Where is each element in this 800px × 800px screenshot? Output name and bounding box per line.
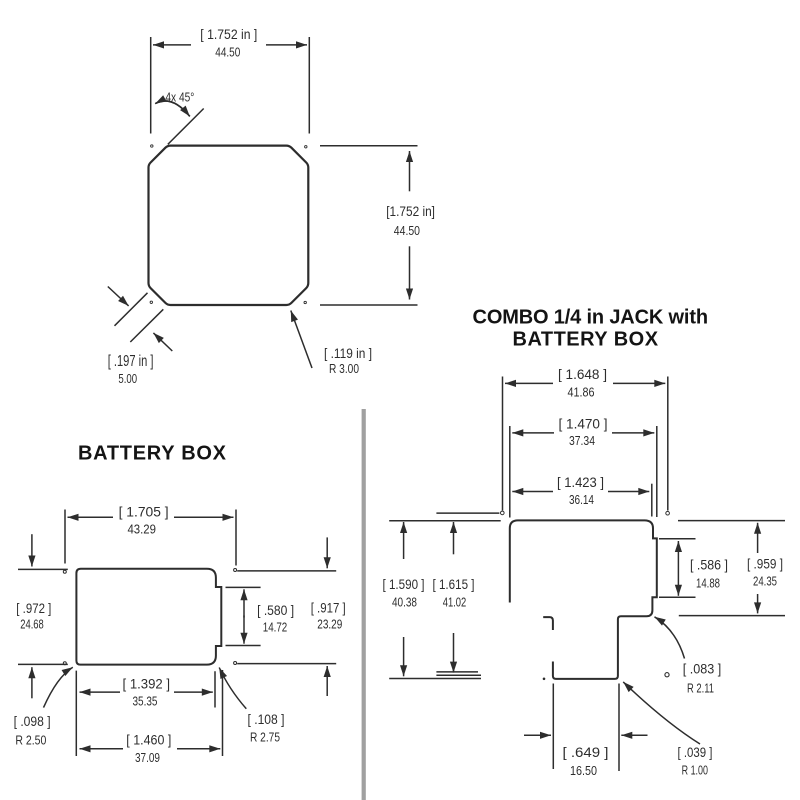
svg-text:37.34: 37.34 (569, 433, 595, 448)
dim .972 : arrows (31, 534, 33, 566)
witness circle 1.648 right (666, 511, 670, 515)
left datum lines (389, 513, 501, 521)
leader R1.00 (623, 682, 700, 744)
corner hole bottom-right (304, 301, 306, 303)
combo cutout outline upper (510, 520, 657, 679)
svg-text:R 2.50: R 2.50 (15, 733, 46, 748)
svg-text:35.35: 35.35 (133, 694, 158, 709)
dim 1.752in right : arrow down (409, 246, 411, 299)
witness hole top-right (234, 569, 237, 572)
svg-text:[ .580 ]: [ .580 ] (257, 603, 294, 619)
dim 1.470 : arrows (512, 432, 554, 434)
svg-text:[ 1.705 ]: [ 1.705 ] (119, 505, 169, 521)
chamfer note arc arrow (155, 101, 190, 116)
dim .197in chamfer line 2 (130, 309, 163, 342)
dim .959 : arrows (757, 523, 759, 553)
svg-text:41.86: 41.86 (568, 385, 595, 400)
corner hole bottom-left (150, 301, 152, 303)
svg-text:[ .098 ]: [ .098 ] (14, 714, 51, 730)
witness hole top-left (63, 570, 66, 573)
dim .580 : extension lines (226, 587, 261, 645)
square cutout outline with 4x 45deg chamfers (149, 146, 309, 305)
leader R3.00 (291, 311, 312, 369)
svg-text:[ .108 ]: [ .108 ] (248, 712, 285, 728)
dim 1.423 : extension line (651, 484, 653, 517)
dim .197in arrow 1 (108, 287, 129, 306)
dim 1.460 : extension line (222, 670, 224, 756)
battery box outline (76, 569, 221, 665)
dim 1.392 : arrows (80, 691, 121, 693)
svg-text:[1.752 in]: [1.752 in] (386, 204, 435, 220)
dim 1.615 : arrows (453, 522, 455, 554)
dim 1.752in top : arrow right (266, 44, 307, 46)
corner hole top-right (305, 146, 307, 148)
divider line (362, 409, 366, 800)
dim 1.705 : arrows (68, 516, 114, 518)
stray dot at bottom edge (543, 678, 546, 681)
dim .649 : arrows (524, 734, 551, 736)
dim 1.648 : arrows (505, 382, 553, 384)
svg-text:37.09: 37.09 (135, 750, 160, 765)
svg-text:[ .197 in ]: [ .197 in ] (108, 353, 154, 370)
svg-text:[ .586 ]: [ .586 ] (690, 557, 728, 573)
dim 1.752in right : arrow up (409, 151, 411, 191)
dim 1.752in right : extension lines (320, 146, 418, 305)
svg-text:16.50: 16.50 (570, 763, 597, 778)
svg-text:BATTERY BOX: BATTERY BOX (513, 329, 661, 351)
svg-text:[ .649 ]: [ .649 ] (563, 745, 609, 761)
svg-text:[ 1.423 ]: [ 1.423 ] (557, 475, 604, 491)
svg-text:[ .959 ]: [ .959 ] (747, 556, 783, 572)
dim 1.460 : arrows (80, 748, 124, 750)
dim .580 : arrows (243, 589, 245, 617)
dim 1.705 : extension lines (65, 510, 236, 566)
svg-text:14.88: 14.88 (696, 575, 720, 590)
svg-text:[ 1.648 ]: [ 1.648 ] (558, 367, 607, 383)
svg-text:44.50: 44.50 (215, 45, 240, 60)
dim .197in arrow 2 (153, 333, 172, 351)
svg-text:[ 1.590 ]: [ 1.590 ] (383, 577, 425, 593)
right datum lines (659, 521, 785, 616)
leader R2.11 (655, 617, 685, 659)
leader R2.75 (219, 668, 246, 709)
svg-text:23.29: 23.29 (317, 616, 342, 631)
svg-text:[ 1.392 ]: [ 1.392 ] (123, 676, 171, 692)
dim 1.648 : extension lines (503, 377, 668, 511)
svg-text:24.35: 24.35 (753, 573, 777, 588)
svg-text:36.14: 36.14 (569, 492, 594, 507)
svg-text:COMBO 1/4 in JACK with: COMBO 1/4 in JACK with (473, 307, 711, 329)
svg-text:[ 1.470 ]: [ 1.470 ] (559, 416, 608, 432)
svg-text:40.38: 40.38 (392, 595, 417, 610)
witness circle R2.11 (665, 673, 669, 677)
dim 1.423 : arrows (512, 491, 553, 493)
svg-text:[ .039 ]: [ .039 ] (678, 745, 713, 761)
dim .649 : extension lines (553, 684, 619, 772)
svg-text:[ .917 ]: [ .917 ] (311, 600, 346, 616)
bottom datum lines (389, 672, 481, 679)
svg-text:R 2.75: R 2.75 (250, 729, 280, 744)
corner hole top-left (151, 145, 153, 147)
witness circle 1.648 left (501, 511, 505, 515)
dim .586 : line and arrows (677, 541, 679, 568)
svg-text:[ 1.752 in ]: [ 1.752 in ] (200, 27, 257, 43)
svg-text:[ 1.460 ]: [ 1.460 ] (126, 732, 171, 748)
dim .917 : extension lines (237, 571, 336, 664)
dim .972 : extension lines (18, 569, 68, 664)
svg-text:43.29: 43.29 (127, 522, 156, 537)
dim 1.752in top : arrow left (153, 44, 191, 46)
combo cutout outline lower-left segment (543, 617, 553, 630)
svg-text:[ .083 ]: [ .083 ] (683, 661, 722, 677)
witness hole bottom-left (63, 662, 66, 665)
svg-text:R 3.00: R 3.00 (329, 361, 359, 376)
svg-text:44.50: 44.50 (394, 223, 420, 238)
svg-text:5.00: 5.00 (118, 371, 137, 386)
svg-text:24.68: 24.68 (20, 617, 44, 632)
dim .917 : arrows (326, 537, 328, 568)
svg-text:[ .119 in ]: [ .119 in ] (324, 346, 372, 362)
leader R2.50 (44, 667, 73, 707)
svg-text:R 1.00: R 1.00 (682, 762, 708, 777)
svg-text:BATTERY BOX: BATTERY BOX (78, 443, 228, 465)
svg-text:14.72: 14.72 (263, 619, 288, 634)
dim 1.470 : extension lines (510, 426, 657, 518)
svg-text:41.02: 41.02 (443, 595, 467, 610)
dim 1.590 : arrows (403, 522, 405, 559)
svg-text:4x 45°: 4x 45° (165, 89, 194, 104)
witness hole bottom-right (234, 662, 237, 665)
svg-text:[ .972 ]: [ .972 ] (16, 601, 51, 617)
dim .197in chamfer line 1 (115, 293, 148, 326)
dim 1.392 : extension lines (76, 671, 215, 756)
svg-text:[ 1.615 ]: [ 1.615 ] (433, 577, 475, 593)
chamfer leader diagonal line (168, 109, 204, 145)
svg-text:R 2.11: R 2.11 (687, 680, 714, 695)
dim 1.752in top : extension lines (151, 37, 310, 134)
